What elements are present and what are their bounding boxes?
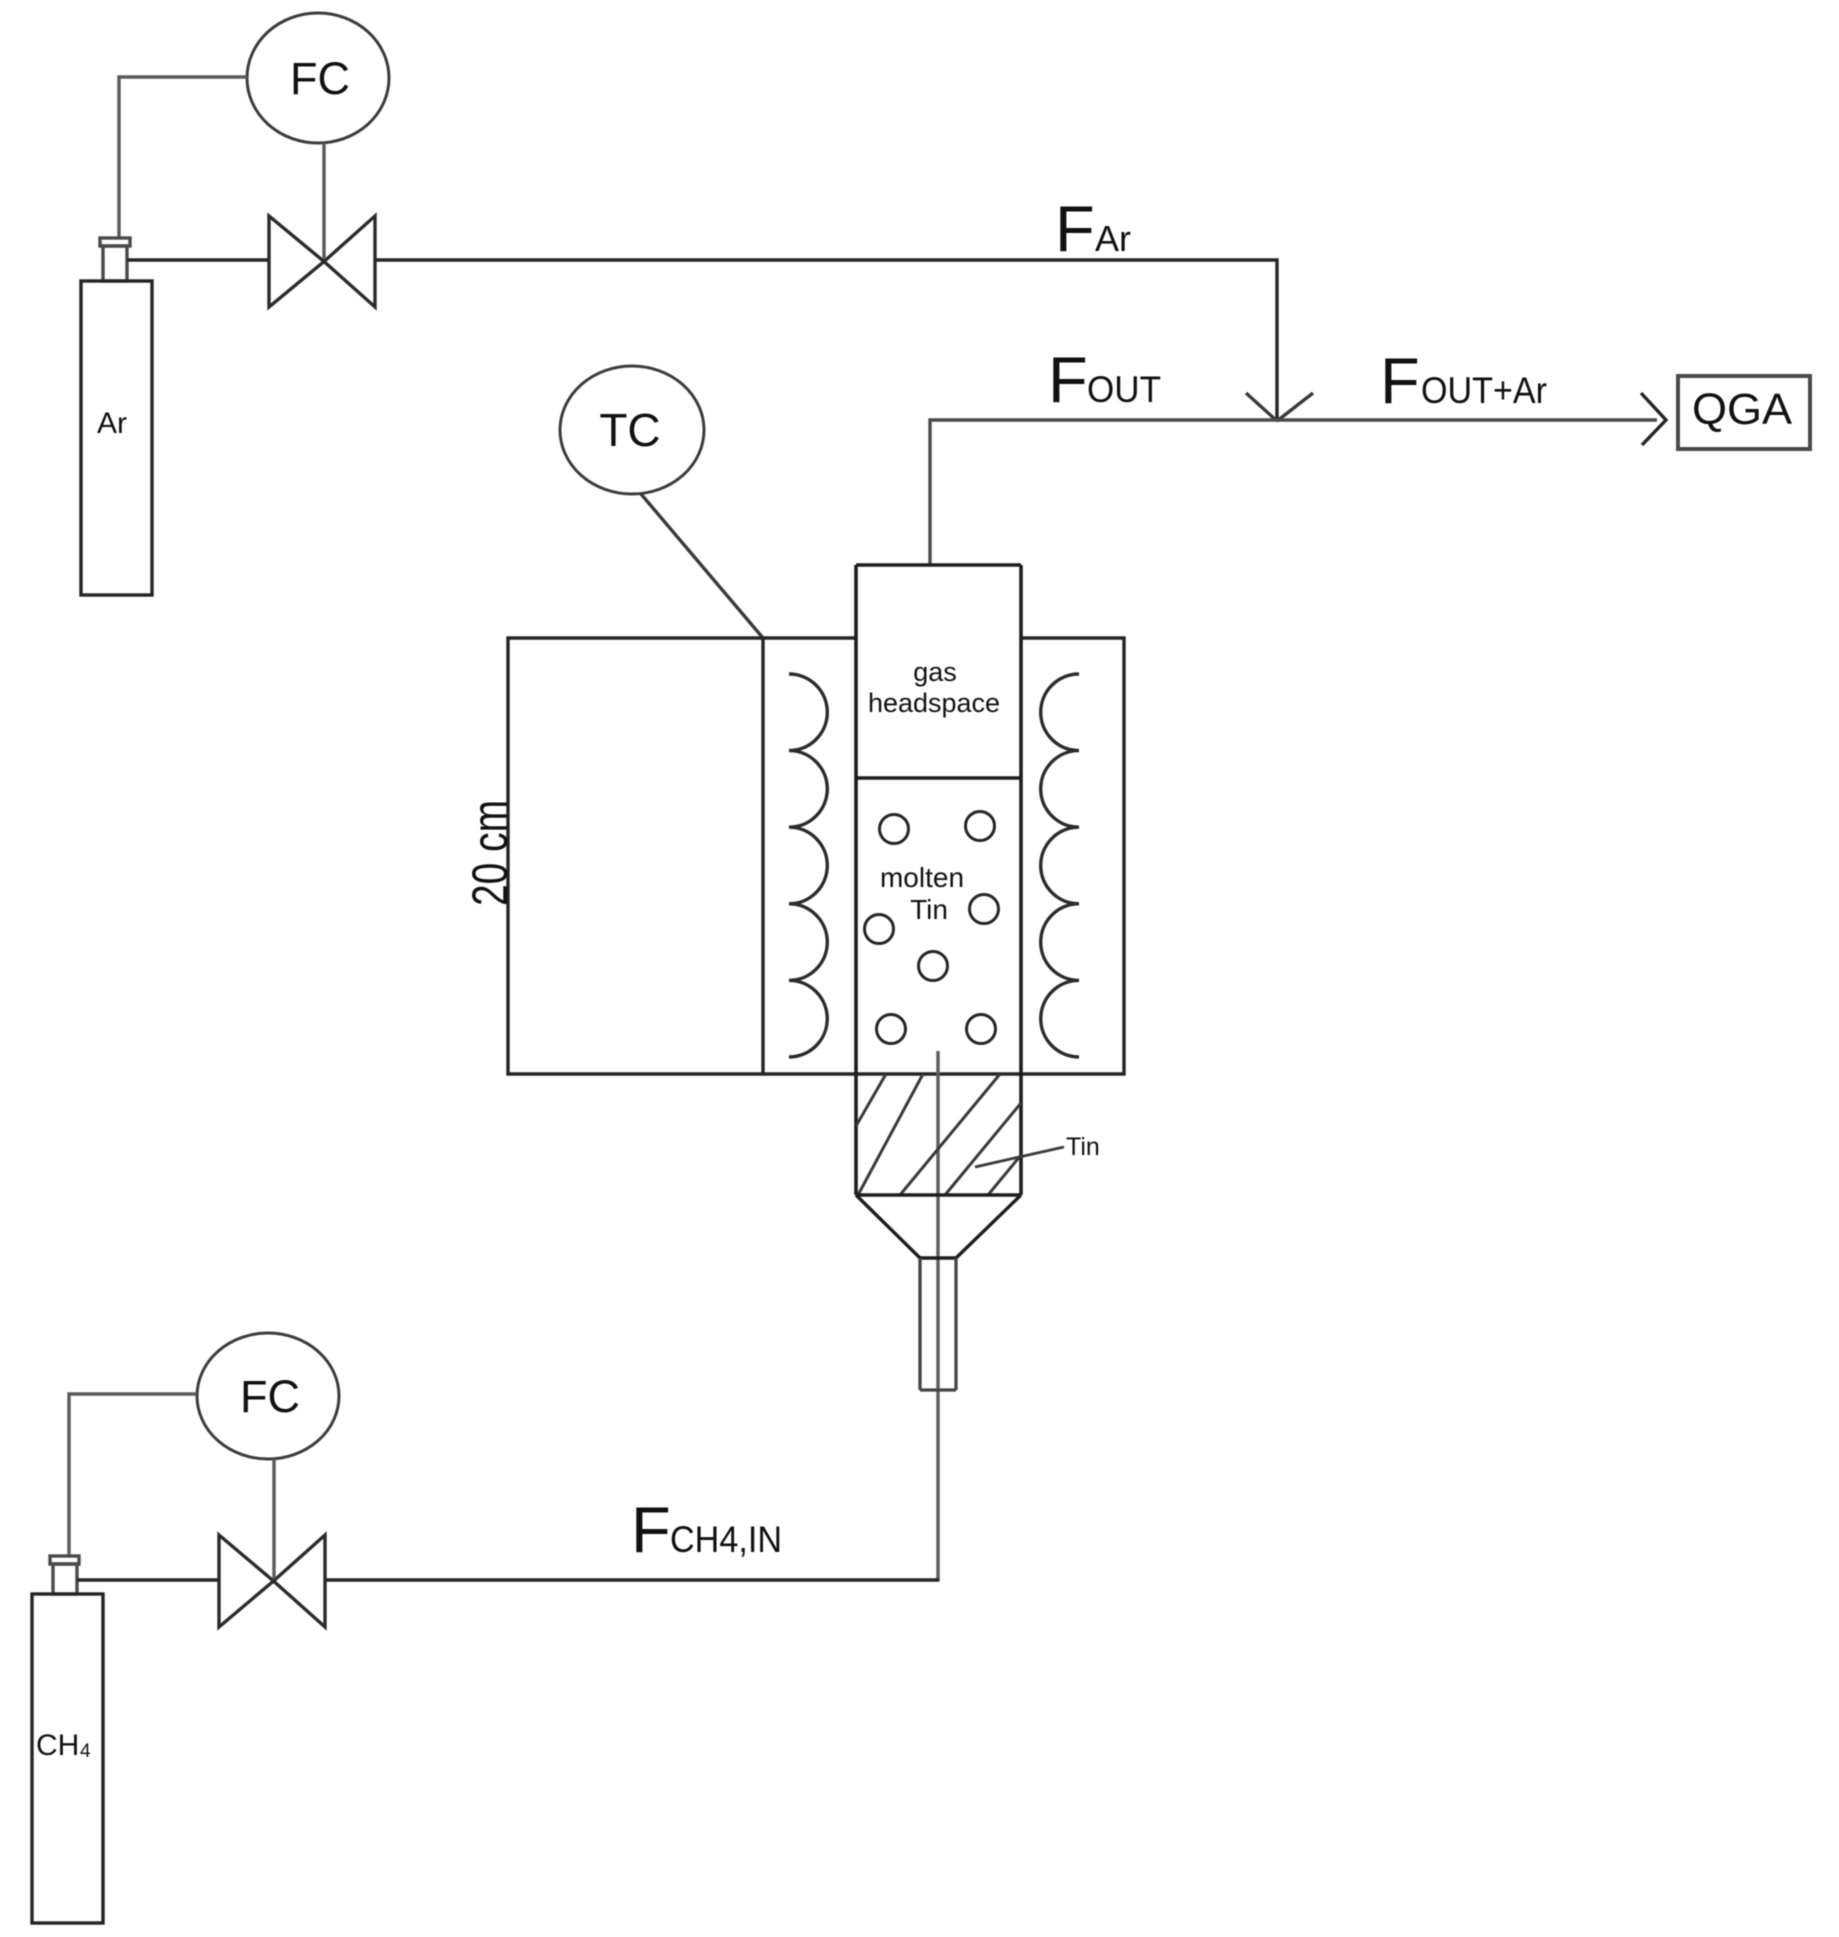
valve V1 (Ar) [269, 216, 375, 307]
wire F_CH4,IN: valve V2 to reactor inlet [325, 1578, 940, 1581]
label F_Ar [1055, 192, 1131, 265]
CH4 dip tube [936, 1051, 940, 1580]
wire CH4 cylinder to valve V2 [77, 1578, 219, 1581]
wire F_OUT: reactor top to junction to QGA [930, 420, 1657, 565]
solid tin hatched section [856, 1074, 1021, 1195]
wire TC to furnace [641, 494, 763, 638]
heating coil right [1041, 674, 1079, 1057]
svg-text:FC: FC [240, 1371, 300, 1422]
wire FC1 to Ar cylinder [119, 77, 247, 239]
stem FC1 to valve V1 [322, 143, 325, 259]
svg-text:QGA: QGA [1692, 385, 1793, 434]
funnel bottom of reactor [856, 1195, 1021, 1258]
svg-text:Tin: Tin [910, 894, 948, 925]
svg-text:FC: FC [290, 53, 350, 104]
arrowhead down at junction [1246, 393, 1313, 421]
svg-text:4: 4 [80, 1741, 91, 1762]
svg-text:20 cm: 20 cm [462, 800, 518, 906]
svg-text:Ar: Ar [97, 407, 127, 440]
Ar cylinder [81, 238, 152, 595]
label F_OUT [1048, 343, 1161, 416]
label F_CH4,IN [631, 1493, 782, 1566]
flow controller FC2 (CH4 line) [197, 1333, 339, 1459]
wire F_Ar: valve V1 to junction [375, 260, 1277, 419]
label molten Tin [880, 862, 964, 925]
svg-text:CH4,IN: CH4,IN [670, 1519, 782, 1560]
bubbles in molten tin [865, 812, 999, 1044]
furnace outer shell [508, 638, 1124, 1074]
stem FC2 to valve V2 [272, 1459, 275, 1579]
gas/melt interface line [856, 776, 1021, 779]
label gas headspace [868, 657, 1000, 718]
heating coil left [789, 674, 827, 1057]
wire FC2 to CH4 cylinder [69, 1394, 197, 1557]
thermocouple TC [560, 366, 704, 494]
valve V2 (CH4) [219, 1535, 325, 1627]
svg-text:F: F [1055, 192, 1095, 265]
label F_OUT+Ar [1380, 344, 1547, 417]
reactor spout tube [920, 1258, 956, 1390]
arrowhead into QGA [1641, 393, 1666, 445]
label Tin with leader [975, 1133, 1100, 1167]
furnace inner wall [761, 638, 764, 1074]
CH4 cylinder [32, 1556, 103, 1923]
svg-text:F: F [1380, 344, 1420, 417]
svg-text:F: F [1048, 343, 1088, 416]
flow controller FC1 (Ar line) [247, 13, 389, 143]
svg-text:Tin: Tin [1066, 1133, 1100, 1161]
svg-text:Ar: Ar [1095, 218, 1131, 259]
QGA analyzer box [1678, 376, 1810, 449]
svg-text:headspace: headspace [868, 688, 1000, 718]
svg-text:CH: CH [36, 1729, 79, 1762]
svg-text:OUT: OUT [1087, 369, 1161, 410]
wire Ar cylinder to valve V1 [127, 258, 269, 261]
svg-text:OUT+Ar: OUT+Ar [1421, 370, 1547, 411]
svg-text:molten: molten [880, 862, 964, 893]
svg-text:gas: gas [913, 657, 957, 687]
svg-text:TC: TC [599, 404, 660, 456]
reactor tube walls [856, 565, 1021, 1195]
svg-text:F: F [631, 1493, 671, 1566]
